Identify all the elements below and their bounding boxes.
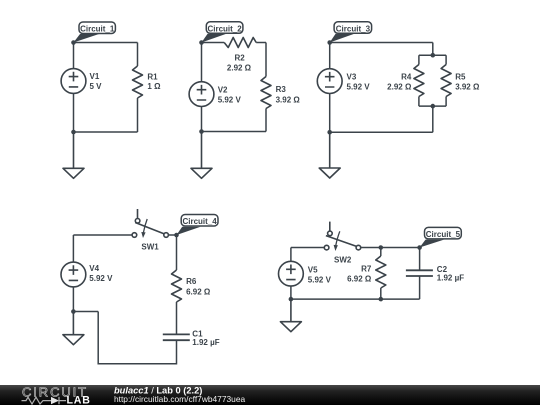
svg-text:3.92 Ω: 3.92 Ω bbox=[276, 95, 301, 104]
svg-text:V3: V3 bbox=[347, 72, 357, 81]
svg-text:http://circuitlab.com/cff7wb47: http://circuitlab.com/cff7wb4773uea bbox=[114, 394, 245, 404]
ground circuit 2 bbox=[191, 132, 212, 179]
svg-text:R2: R2 bbox=[234, 54, 245, 63]
svg-text:Circuit_3: Circuit_3 bbox=[336, 25, 371, 34]
svg-text:R7: R7 bbox=[361, 265, 372, 274]
node circuit 3 top bbox=[327, 40, 332, 45]
wire bottom rail circuit 1 bbox=[74, 131, 138, 133]
svg-text:2.92 Ω: 2.92 Ω bbox=[227, 64, 252, 73]
svg-text:SW2: SW2 bbox=[334, 255, 352, 264]
label R1 value bbox=[147, 72, 161, 91]
svg-text:Circuit_1: Circuit_1 bbox=[80, 25, 115, 34]
wire V2 bottom lead bbox=[201, 107, 203, 132]
wire R7 top lead bbox=[380, 248, 382, 257]
node circuit 3 bottom bbox=[327, 130, 332, 135]
label Circuit_4 callout bbox=[177, 215, 219, 236]
label Circuit_1 callout bbox=[74, 22, 116, 43]
label C2 value bbox=[437, 265, 464, 282]
node circuit 5 label bbox=[417, 245, 422, 250]
voltage source V2 bbox=[189, 82, 214, 107]
svg-text:R5: R5 bbox=[455, 72, 466, 81]
ground circuit 1 bbox=[63, 132, 84, 178]
resistor R6 bbox=[172, 270, 182, 302]
node circuit 1 top bbox=[71, 40, 76, 45]
node circuit 1 bottom bbox=[71, 130, 76, 135]
wire SW1 to node bbox=[169, 234, 177, 236]
svg-text:Circuit_4: Circuit_4 bbox=[182, 217, 217, 226]
voltage source V5 bbox=[279, 261, 304, 286]
svg-text:V5: V5 bbox=[308, 266, 318, 275]
svg-text:1.92 µF: 1.92 µF bbox=[437, 274, 464, 283]
resistor R5 bbox=[441, 65, 451, 97]
node circuit 2 top bbox=[199, 40, 204, 45]
svg-text:5.92 V: 5.92 V bbox=[347, 82, 371, 91]
wire C2 bottom lead bbox=[419, 276, 421, 299]
svg-text:2.92 Ω: 2.92 Ω bbox=[387, 82, 412, 91]
resistor R7 bbox=[376, 256, 386, 288]
wire R1 bottom lead bbox=[137, 98, 139, 132]
node circuit 4 top bbox=[174, 233, 179, 238]
label SW1 bbox=[141, 242, 159, 251]
wire bottom rail circuit 5 bbox=[291, 298, 420, 300]
label R6 value bbox=[186, 277, 211, 296]
voltage source V1 bbox=[61, 69, 86, 94]
node circuit 5 bottom left bbox=[289, 297, 294, 302]
svg-text:6.92 Ω: 6.92 Ω bbox=[186, 287, 211, 296]
svg-text:Circuit_5: Circuit_5 bbox=[426, 230, 461, 239]
wire R7 bottom lead bbox=[380, 288, 382, 299]
voltage source V3 bbox=[317, 69, 342, 94]
label V1 value bbox=[90, 72, 103, 91]
wire V3 bottom lead bbox=[329, 94, 331, 133]
node parallel bottom junction bbox=[431, 104, 436, 109]
resistor R2 bbox=[224, 38, 256, 48]
label V2 value bbox=[218, 85, 242, 104]
node circuit 4 bottom bbox=[71, 309, 76, 314]
label V3 value bbox=[347, 72, 371, 91]
svg-text:R4: R4 bbox=[401, 72, 412, 81]
label R3 value bbox=[276, 85, 301, 104]
switch SW2 bbox=[324, 222, 360, 251]
wire C2 top lead bbox=[419, 248, 421, 271]
ground circuit 4 bbox=[63, 312, 84, 345]
svg-text:5.92 V: 5.92 V bbox=[308, 276, 332, 285]
wire C1 bottom loop bbox=[73, 312, 176, 364]
wire bottom rail circuit 2 bbox=[202, 131, 267, 133]
label C1 value bbox=[192, 330, 219, 347]
svg-text:V2: V2 bbox=[218, 85, 228, 94]
capacitor C2 bbox=[406, 270, 433, 276]
logo CIRCUIT text bbox=[22, 384, 88, 399]
voltage source V4 bbox=[61, 262, 86, 287]
label SW2 bbox=[334, 255, 352, 264]
svg-text:5.92 V: 5.92 V bbox=[218, 95, 242, 104]
wire top rail circuit 2 bbox=[202, 43, 267, 82]
svg-text:SW1: SW1 bbox=[141, 242, 159, 251]
logo LAB text bbox=[67, 394, 91, 405]
label R4 value bbox=[387, 72, 412, 91]
node circuit 2 bottom bbox=[199, 129, 204, 134]
label V5 value bbox=[308, 266, 332, 285]
svg-text:LAB: LAB bbox=[67, 394, 91, 405]
ground circuit 5 bbox=[280, 299, 301, 332]
svg-text:1 Ω: 1 Ω bbox=[147, 82, 161, 91]
svg-text:5 V: 5 V bbox=[90, 82, 103, 91]
svg-text:1.92 µF: 1.92 µF bbox=[192, 338, 219, 347]
label R7 value bbox=[347, 265, 372, 284]
label Circuit_2 callout bbox=[202, 22, 243, 43]
wire top rail circuit 1 bbox=[74, 43, 138, 69]
wire R3 bottom lead bbox=[265, 109, 267, 132]
resistor R4 bbox=[414, 65, 424, 97]
wire V1 bottom lead bbox=[73, 93, 75, 132]
label R5 value bbox=[455, 72, 480, 91]
svg-text:3.92 Ω: 3.92 Ω bbox=[455, 82, 480, 91]
footer title text bbox=[114, 386, 245, 404]
svg-text:Circuit_2: Circuit_2 bbox=[207, 25, 242, 34]
capacitor C1 bbox=[163, 334, 190, 340]
svg-text:R3: R3 bbox=[276, 85, 287, 94]
wire top rail circuit 3 bbox=[330, 43, 433, 69]
wire V5 bottom lead bbox=[290, 286, 292, 299]
svg-text:6.92 Ω: 6.92 Ω bbox=[347, 274, 372, 283]
node R7 bottom bbox=[379, 297, 384, 302]
wire V5 top lead bbox=[291, 248, 324, 262]
wire V4 top lead bbox=[73, 235, 132, 262]
switch SW1 bbox=[132, 209, 168, 238]
wire parallel block bottom bar bbox=[419, 97, 446, 133]
resistor R3 bbox=[261, 77, 271, 109]
wire R6 to C1 bbox=[176, 302, 178, 334]
svg-text:R1: R1 bbox=[147, 72, 158, 81]
label V4 value bbox=[89, 264, 113, 283]
svg-text:V1: V1 bbox=[90, 72, 100, 81]
wire parallel block top bar bbox=[419, 55, 446, 64]
node R7 top bbox=[379, 245, 384, 250]
svg-text:R6: R6 bbox=[186, 277, 197, 286]
label Circuit_3 callout bbox=[330, 22, 372, 43]
logo resistor-diode glyph bbox=[22, 397, 67, 404]
resistor R1 bbox=[133, 66, 143, 98]
node parallel top junction bbox=[431, 53, 436, 58]
svg-text:5.92 V: 5.92 V bbox=[89, 274, 113, 283]
ground circuit 3 bbox=[319, 132, 340, 178]
svg-text:V4: V4 bbox=[89, 264, 99, 273]
wire R6 top lead bbox=[176, 235, 178, 270]
label Circuit_5 callout bbox=[420, 227, 462, 247]
label R2 value bbox=[227, 54, 252, 73]
wire bottom rail circuit 3 bbox=[330, 131, 433, 133]
wire V4 bottom lead bbox=[72, 287, 74, 312]
wire SW2 to R7 and C2 bbox=[361, 247, 420, 249]
